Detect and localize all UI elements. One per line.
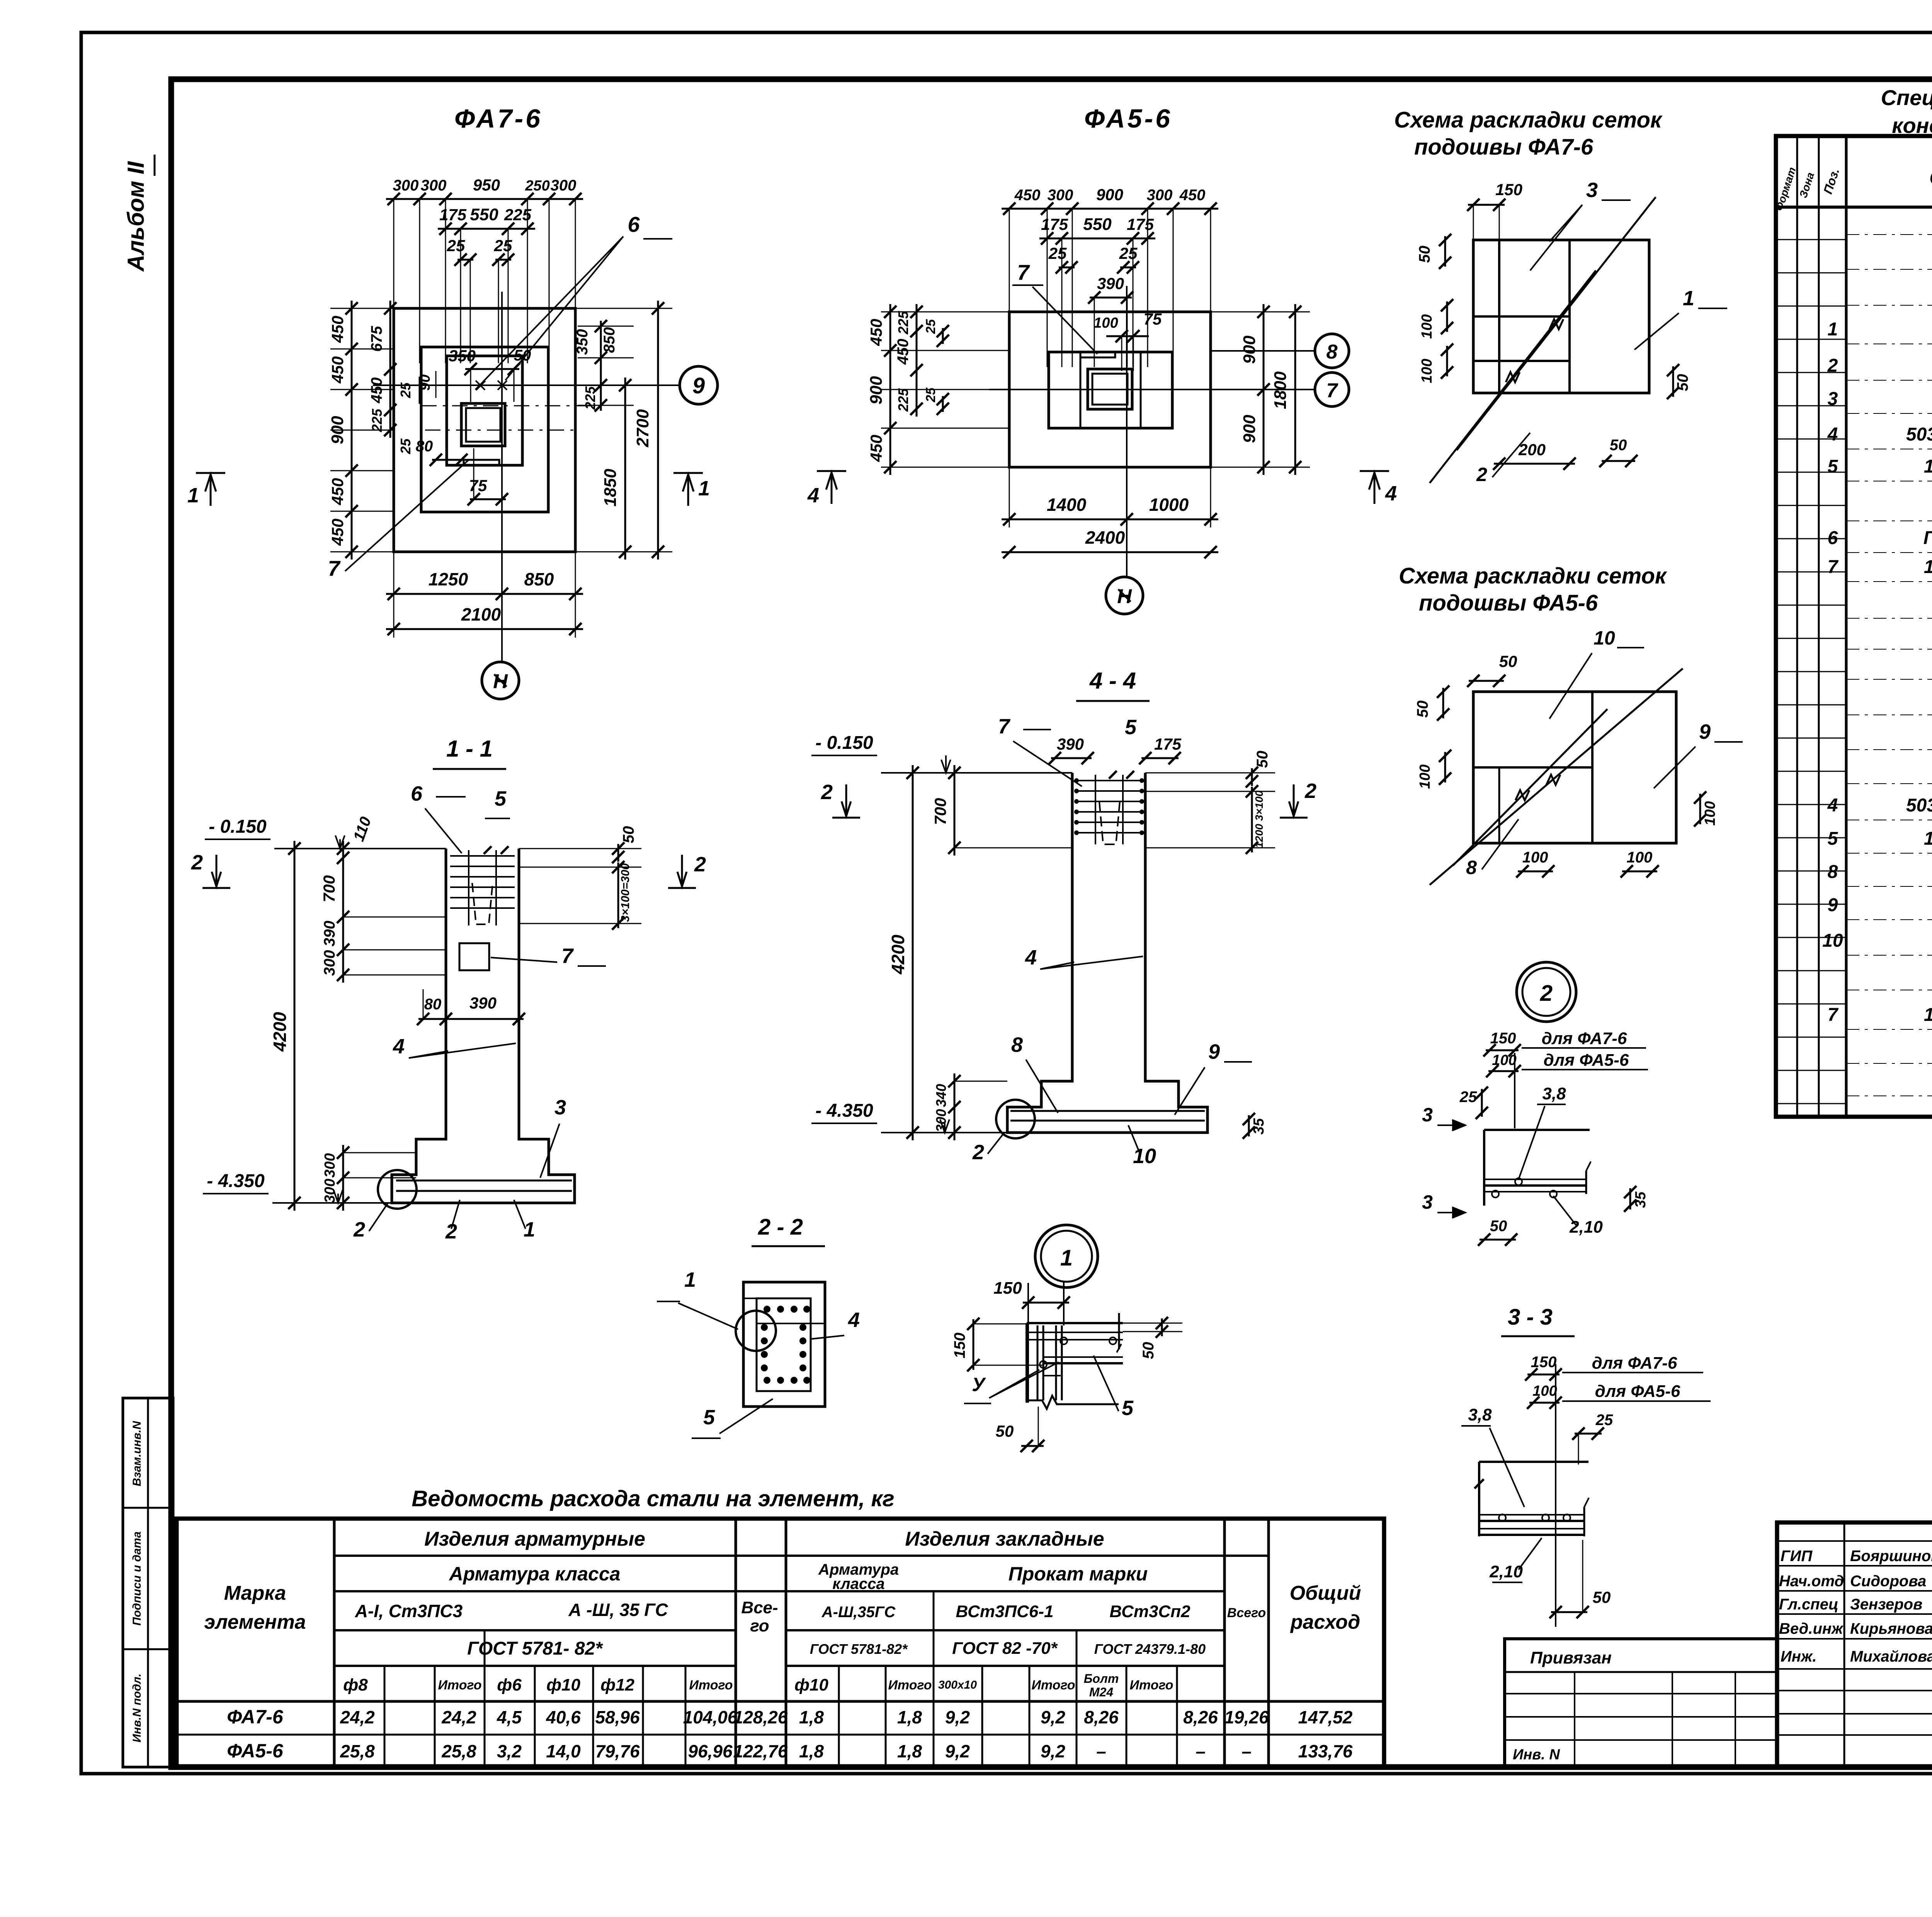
svg-text:4: 4 <box>1025 946 1037 969</box>
detail 1 vertical bars <box>1037 1325 1039 1400</box>
svg-text:Итого: Итого <box>888 1678 932 1692</box>
plan FA7-6 bolt line dashed <box>421 405 595 407</box>
section 1-1 column rebar verticals <box>468 850 469 925</box>
plan FA5-6 outer slab outline <box>1009 312 1211 467</box>
svg-text:1: 1 <box>1683 287 1694 310</box>
svg-text:8: 8 <box>1828 862 1838 882</box>
mesh scheme FA5-6 left dims 50/100 <box>1442 688 1444 718</box>
plan FA5-6 top dim row 1 (450 300 900 300 450) <box>1009 209 1010 367</box>
svg-text:9: 9 <box>1208 1040 1220 1063</box>
section 4-4 right dim 35 <box>1248 1115 1250 1136</box>
svg-text:390: 390 <box>1057 735 1084 753</box>
section 4-4 dim 4200 <box>912 765 914 1140</box>
svg-text:–: – <box>1196 1741 1206 1761</box>
svg-text:2: 2 <box>1540 981 1553 1006</box>
section 1-1 dim 80/390 below <box>418 1018 524 1020</box>
detail 3-3 plate body top line <box>1479 1461 1588 1463</box>
svg-text:–: – <box>1242 1741 1252 1761</box>
svg-text:50: 50 <box>1610 437 1627 454</box>
svg-text:Михайлова: Михайлова <box>1850 1648 1932 1665</box>
svg-text:А-Ш,35ГС: А-Ш,35ГС <box>821 1604 896 1621</box>
svg-text:550: 550 <box>470 205 498 224</box>
plan FA7-6 socket square inner <box>466 408 500 442</box>
detail 2 bottom dim 50 <box>1480 1239 1516 1241</box>
svg-text:3,8: 3,8 <box>1468 1405 1492 1424</box>
plan FA7-6 axis circle Н bottom <box>482 662 519 699</box>
svg-text:ВСт3Сп2: ВСт3Сп2 <box>1109 1602 1190 1621</box>
svg-text:Ведомость расхода стали на эле: Ведомость расхода стали на элемент, кг <box>412 1486 894 1511</box>
detail 3-3 left tick <box>1475 1479 1484 1488</box>
spec body row separators dashed <box>1846 234 1932 235</box>
svg-text:75: 75 <box>469 476 487 495</box>
svg-text:225: 225 <box>895 388 911 412</box>
section 4-4 column and footing outline <box>1007 773 1207 1133</box>
plan FA7-6 bolt cross 1 <box>476 381 485 390</box>
section 4-4 right dim 50 <box>1251 768 1253 786</box>
plan FA7-6 dim 350 50 above pedestal <box>465 368 519 370</box>
svg-text:4: 4 <box>393 1035 405 1058</box>
svg-text:Итого: Итого <box>689 1678 733 1692</box>
svg-text:2100: 2100 <box>461 604 501 624</box>
plan FA7-6 section mark 1 left <box>210 476 212 506</box>
svg-text:ФА7-6: ФА7-6 <box>227 1706 284 1728</box>
svg-text:225: 225 <box>504 206 532 224</box>
title block signature columns <box>1844 1522 1845 1767</box>
svg-text:4 - 4: 4 - 4 <box>1089 668 1136 694</box>
plan FA7-6 left dim chain outer 450/450/900/450/450 <box>351 301 353 560</box>
steel table band line 3 <box>334 1629 736 1631</box>
plan FA7-6 bottom dim 2100 <box>386 628 583 630</box>
svg-text:Сидорова: Сидорова <box>1850 1573 1926 1590</box>
svg-text:Итого: Итого <box>438 1678 481 1692</box>
svg-text:950: 950 <box>473 176 500 194</box>
svg-text:ф10: ф10 <box>546 1675 580 1694</box>
svg-text:2: 2 <box>191 851 203 874</box>
svg-text:2: 2 <box>1476 464 1487 485</box>
svg-text:ФА7-6: ФА7-6 <box>454 104 543 133</box>
svg-text:100: 100 <box>1532 1383 1557 1399</box>
svg-text:200: 200 <box>1518 441 1546 459</box>
svg-text:Изделия арматурные: Изделия арматурные <box>424 1528 645 1550</box>
detail 3-3 plate anchor dots <box>1499 1514 1506 1521</box>
svg-text:Вед.инж: Вед.инж <box>1779 1620 1844 1637</box>
svg-text:4: 4 <box>1827 795 1838 816</box>
plan FA5-6 pedestal band outline <box>1049 352 1172 428</box>
steel table sub verticals zakl <box>838 1666 840 1768</box>
svg-text:900: 900 <box>867 376 886 405</box>
plan FA5-6 socket square inner <box>1092 374 1128 405</box>
svg-text:25: 25 <box>1048 244 1067 262</box>
detail 2 circle mark <box>1517 962 1576 1022</box>
detail 1 right end break marks <box>1118 1313 1120 1349</box>
plan FA5-6 left chain 450/900/450 <box>889 304 891 475</box>
svg-text:–: – <box>1096 1741 1106 1761</box>
detail 1 lower band lines <box>1043 1356 1123 1358</box>
svg-text:ф10: ф10 <box>794 1675 828 1694</box>
plan FA5-6 axis circle 8 <box>1315 334 1349 368</box>
svg-text:300: 300 <box>421 177 447 194</box>
detail 3-3 dim 150 для ФА7-6 <box>1555 1364 1556 1627</box>
plan FA5-6 dim 100 75 <box>1106 335 1149 337</box>
svg-text:300: 300 <box>393 177 419 194</box>
svg-text:24,2: 24,2 <box>340 1707 375 1727</box>
detail 1 column edge left <box>1026 1323 1028 1403</box>
plan FA7-6 bottom dim 1250/850 <box>393 552 395 602</box>
svg-text:- 0.150: - 0.150 <box>209 816 267 837</box>
detail 2-2 column section outline <box>743 1282 825 1407</box>
plan FA5-6 socket square outer <box>1088 369 1132 409</box>
svg-text:7: 7 <box>998 715 1011 738</box>
svg-text:100: 100 <box>1492 1052 1516 1068</box>
svg-text:9,2: 9,2 <box>1041 1707 1065 1727</box>
svg-text:900: 900 <box>1240 415 1259 443</box>
detail 2-2 rebar dots bottom <box>764 1377 770 1384</box>
svg-text:Гл.спец: Гл.спец <box>1779 1596 1838 1613</box>
svg-text:4: 4 <box>1385 482 1397 505</box>
section 1-1 dim 4200 <box>294 841 296 1211</box>
svg-text:175: 175 <box>1041 215 1068 233</box>
svg-text:300: 300 <box>1048 187 1073 204</box>
detail 2 dim 100 для ФА5-6 <box>1488 1070 1519 1072</box>
detail 1 corner step <box>1043 1363 1061 1376</box>
svg-text:9: 9 <box>1699 720 1711 743</box>
svg-text:35: 35 <box>1633 1191 1649 1208</box>
detail 2 plate anchor dots <box>1492 1191 1499 1197</box>
svg-text:503-4-46.87 -КЖИ-С2: 503-4-46.87 -КЖИ-С2 <box>1906 795 1932 816</box>
svg-text:25: 25 <box>447 236 465 255</box>
steel table band line 2 <box>334 1590 786 1592</box>
svg-text:1.400-6/76 вып.1: 1.400-6/76 вып.1 <box>1924 557 1932 577</box>
svg-text:1: 1 <box>187 484 199 507</box>
svg-text:5: 5 <box>495 787 507 810</box>
section 1-1 column and footing outline <box>392 849 575 1203</box>
mesh scheme FA7-6 center divider <box>1568 240 1571 393</box>
svg-text:450: 450 <box>1179 187 1206 204</box>
plan FA7-6 top dim row 3 (25 25) <box>457 259 473 261</box>
svg-text:5: 5 <box>1828 456 1838 477</box>
svg-text:подошвы ФА5-6: подошвы ФА5-6 <box>1419 590 1598 616</box>
svg-text:6: 6 <box>628 212 640 236</box>
svg-text:175: 175 <box>1154 735 1182 753</box>
plan FA5-6 upper axis line <box>1211 350 1315 352</box>
svg-text:1,8: 1,8 <box>799 1741 824 1761</box>
section 4-4 slab mesh lines <box>1010 1110 1205 1112</box>
svg-text:4200: 4200 <box>270 1012 290 1052</box>
mesh scheme FA7-6 dim 150 top <box>1468 204 1505 206</box>
svg-text:для ФА5-6: для ФА5-6 <box>1544 1051 1629 1070</box>
mesh scheme FA7-6 left column divider <box>1498 240 1500 393</box>
svg-text:35: 35 <box>1251 1118 1267 1135</box>
svg-text:150: 150 <box>951 1333 968 1359</box>
detail 2 plate body <box>1484 1129 1590 1131</box>
svg-text:7: 7 <box>1828 557 1839 577</box>
svg-text:79,76: 79,76 <box>595 1741 640 1761</box>
detail 3-3 dim 100 для ФА5-6 <box>1529 1402 1560 1404</box>
privyazan block frame <box>1505 1639 1777 1767</box>
svg-text:225: 225 <box>582 386 598 410</box>
detail 3-3 bottom dim 50 <box>1551 1611 1587 1613</box>
svg-text:450: 450 <box>328 316 347 343</box>
svg-text:10: 10 <box>1133 1145 1156 1168</box>
svg-text:40,6: 40,6 <box>546 1707 581 1727</box>
steel table frame <box>177 1519 1384 1768</box>
svg-text:ф12: ф12 <box>600 1675 634 1694</box>
spec column Поз <box>1845 136 1848 1117</box>
plan FA5-6 horizontal axis line <box>989 389 1315 390</box>
section 1-1 left dim chain 110/700/390/300 <box>342 841 344 983</box>
svg-text:А -Ш, 35 ГС: А -Ш, 35 ГС <box>568 1600 668 1620</box>
detail 2-2 corner detail circle <box>736 1311 776 1351</box>
mesh scheme FA7-6 diagonal 2 <box>1430 270 1596 483</box>
spec narrow column row ladder <box>1776 239 1846 240</box>
svg-text:50: 50 <box>1140 1342 1157 1359</box>
svg-text:340: 340 <box>933 1084 949 1107</box>
svg-text:390: 390 <box>1097 274 1124 293</box>
svg-text:50: 50 <box>1674 374 1691 391</box>
svg-text:А-I, Ст3ПС3: А-I, Ст3ПС3 <box>355 1601 463 1621</box>
svg-text:2: 2 <box>821 781 833 804</box>
svg-text:9,2: 9,2 <box>1041 1741 1065 1761</box>
svg-text:5: 5 <box>1828 828 1838 849</box>
svg-text:100: 100 <box>1702 801 1718 825</box>
svg-text:3: 3 <box>1422 1191 1433 1213</box>
svg-text:25: 25 <box>1459 1089 1477 1106</box>
mesh scheme FA5-6 right dim 100 <box>1699 794 1701 824</box>
plan FA7-6 middle step outline <box>421 347 548 512</box>
svg-text:2: 2 <box>694 853 706 876</box>
plan FA5-6 dim 390 above notch <box>1090 297 1132 299</box>
plan FA5-6 section mark 4 left <box>831 474 833 504</box>
svg-text:1400: 1400 <box>1047 495 1087 515</box>
section 1-1 anchor plate 7 <box>459 943 489 970</box>
svg-text:50: 50 <box>996 1422 1014 1440</box>
svg-text:450: 450 <box>328 356 347 384</box>
plan FA5-6 section mark 4 right <box>1374 474 1376 504</box>
svg-text:25,8: 25,8 <box>441 1741 476 1761</box>
section 1-1 rebar hook dashes <box>472 883 493 924</box>
svg-text:150: 150 <box>1495 180 1522 199</box>
section 4-4 dim 700 left <box>954 765 956 856</box>
svg-text:6: 6 <box>411 782 423 805</box>
svg-text:2: 2 <box>353 1218 365 1241</box>
svg-text:ГОСТ 82 -70*: ГОСТ 82 -70* <box>952 1639 1058 1658</box>
plan FA7-6 right dim chain 1850 <box>624 378 626 560</box>
mesh scheme FA7-6 left dims 50/100/100 <box>1444 236 1446 267</box>
svg-text:58,96: 58,96 <box>595 1707 640 1727</box>
svg-text:1850: 1850 <box>601 469 620 507</box>
svg-text:Подписи и дата: Подписи и дата <box>131 1531 143 1626</box>
svg-text:128,26: 128,26 <box>733 1707 788 1727</box>
svg-text:1.412-1/77 вып.3: 1.412-1/77 вып.3 <box>1924 828 1932 849</box>
detail 1 circle mark <box>1035 1225 1098 1288</box>
svg-text:300: 300 <box>551 177 577 194</box>
svg-text:100: 100 <box>1522 849 1548 866</box>
svg-text:ГОСТ 24379.1-80: ГОСТ 24379.1-80 <box>1923 528 1932 548</box>
plan FA7-6 bottom notch MO-4 <box>464 460 499 465</box>
svg-text:7: 7 <box>1017 260 1030 284</box>
svg-text:У: У <box>972 1374 986 1395</box>
svg-text:900: 900 <box>328 416 347 444</box>
svg-text:24,2: 24,2 <box>441 1707 476 1727</box>
plan FA5-6 vertical axis line <box>1126 286 1128 577</box>
plan FA5-6 axis circle 7 <box>1315 373 1349 407</box>
svg-text:50: 50 <box>1416 246 1433 263</box>
mesh scheme FA5-6 diagonal 1 <box>1430 668 1683 885</box>
svg-text:225: 225 <box>895 311 911 335</box>
mesh scheme FA5-6 dim 50 top <box>1469 680 1504 682</box>
detail 1 dim 150 <box>1023 1302 1069 1304</box>
svg-text:450: 450 <box>867 435 885 462</box>
svg-text:Все-: Все- <box>741 1598 778 1617</box>
section 4-4 dim 390 top <box>1051 757 1092 759</box>
svg-text:Инж.: Инж. <box>1781 1648 1817 1665</box>
steel table band line 1 <box>334 1555 1269 1557</box>
svg-text:150: 150 <box>993 1279 1022 1298</box>
svg-text:8,26: 8,26 <box>1183 1707 1218 1727</box>
section 4-4 column rebar verticals <box>1095 775 1096 844</box>
svg-text:5: 5 <box>1125 716 1137 739</box>
svg-text:Марка: Марка <box>224 1582 286 1604</box>
svg-text:50: 50 <box>1593 1588 1611 1606</box>
plan FA7-6 horizontal axis line <box>373 384 679 386</box>
svg-text:2: 2 <box>445 1220 457 1243</box>
svg-text:Инв. N: Инв. N <box>1513 1747 1560 1763</box>
svg-text:100: 100 <box>1094 315 1118 331</box>
plan FA7-6 socket centerline dashed <box>425 430 580 431</box>
svg-text:8: 8 <box>1327 341 1338 363</box>
svg-text:ГОСТ 24379.1-80: ГОСТ 24379.1-80 <box>1094 1641 1206 1657</box>
svg-text:Схема раскладки сеток: Схема раскладки сеток <box>1394 107 1663 133</box>
svg-text:- 0.150: - 0.150 <box>815 733 873 753</box>
svg-text:5: 5 <box>703 1406 715 1429</box>
plan FA7-6 left dim extension lines <box>330 308 394 309</box>
svg-text:1: 1 <box>698 477 710 500</box>
svg-text:25: 25 <box>398 438 413 454</box>
svg-text:Инв.N подл.: Инв.N подл. <box>131 1674 143 1742</box>
svg-text:147,52: 147,52 <box>1298 1707 1353 1727</box>
svg-text:1: 1 <box>1828 319 1838 340</box>
svg-text:250: 250 <box>525 178 549 194</box>
svg-text:Изделия закладные: Изделия закладные <box>905 1528 1104 1550</box>
section 1-1 left dim bottom 300/300 <box>342 1145 344 1211</box>
mesh scheme FA5-6 diagonal 2 <box>1453 709 1607 866</box>
detail 2 right break <box>1586 1162 1591 1171</box>
svg-text:расход: расход <box>1290 1611 1360 1633</box>
svg-text:Общий: Общий <box>1290 1582 1361 1604</box>
svg-text:3 - 3: 3 - 3 <box>1508 1305 1553 1330</box>
svg-text:9: 9 <box>1828 895 1838 915</box>
svg-text:4: 4 <box>807 484 819 507</box>
title block signature table frame <box>1777 1522 1932 1767</box>
detail 3-3 plate bands <box>1479 1514 1584 1516</box>
svg-text:2400: 2400 <box>1085 527 1125 548</box>
mesh scheme FA7-6 right dim 50 <box>1672 366 1674 397</box>
svg-text:2: 2 <box>972 1141 984 1164</box>
svg-text:ФА5-6: ФА5-6 <box>227 1740 284 1762</box>
svg-text:96,96: 96,96 <box>688 1741 733 1761</box>
svg-text:50: 50 <box>1499 652 1517 670</box>
detail 1 slab top lines <box>1027 1322 1123 1324</box>
svg-text:3,2: 3,2 <box>497 1741 522 1761</box>
svg-text:Бояршинов: Бояршинов <box>1850 1548 1932 1565</box>
detail 3-3 plate left edge <box>1478 1462 1480 1536</box>
svg-text:2: 2 <box>1827 356 1838 376</box>
svg-text:133,76: 133,76 <box>1298 1741 1353 1761</box>
detail 2-2 inner grid lines <box>757 1323 825 1324</box>
plan FA7-6 vertical axis line <box>501 292 503 662</box>
svg-text:19,26: 19,26 <box>1224 1707 1269 1727</box>
svg-text:150: 150 <box>1531 1354 1557 1371</box>
svg-text:Кирьянова: Кирьянова <box>1850 1620 1932 1637</box>
detail 1 bar dots <box>1060 1337 1067 1344</box>
svg-text:7: 7 <box>561 944 574 968</box>
svg-text:Итого: Итого <box>1129 1678 1173 1692</box>
svg-text:Спецификация монолитной же: Спецификация монолитной железобетонной <box>1881 85 1932 110</box>
svg-text:1800: 1800 <box>1271 371 1290 409</box>
plan FA7-6 right dim chain 2700 <box>657 301 659 560</box>
plan FA7-6 pedestal outline <box>447 356 522 465</box>
svg-text:225: 225 <box>369 408 385 432</box>
svg-text:390: 390 <box>469 994 497 1012</box>
svg-text:9,2: 9,2 <box>945 1741 970 1761</box>
svg-text:25: 25 <box>1119 244 1138 262</box>
svg-text:класса: класса <box>832 1575 884 1592</box>
mesh scheme FA5-6 center divider <box>1591 692 1594 843</box>
svg-text:Схема раскладки сеток: Схема раскладки сеток <box>1399 563 1667 589</box>
svg-text:4: 4 <box>848 1308 860 1332</box>
mesh scheme FA5-6 inner verticals bottom left <box>1498 767 1500 843</box>
svg-text:Прокат марки: Прокат марки <box>1009 1563 1148 1585</box>
svg-text:2 - 2: 2 - 2 <box>758 1214 803 1240</box>
svg-text:4200: 4200 <box>888 934 908 975</box>
svg-text:ФА5-6: ФА5-6 <box>1084 104 1172 133</box>
plan FA5-6 left dim extension lines <box>881 311 1009 313</box>
svg-text:- 4.350: - 4.350 <box>207 1171 265 1191</box>
svg-text:50: 50 <box>1254 751 1271 768</box>
svg-text:900: 900 <box>1240 335 1259 364</box>
svg-text:Зензеров: Зензеров <box>1850 1596 1922 1613</box>
svg-text:9,2: 9,2 <box>945 1707 970 1727</box>
svg-text:14,0: 14,0 <box>546 1741 581 1761</box>
steel table sub verticals arm <box>384 1666 386 1768</box>
svg-text:для ФА7-6: для ФА7-6 <box>1542 1029 1627 1048</box>
svg-text:390: 390 <box>321 921 338 947</box>
svg-text:2,10: 2,10 <box>1569 1218 1603 1237</box>
svg-text:1: 1 <box>684 1268 696 1291</box>
plan FA5-6 right dim chain 1800 <box>1294 304 1296 475</box>
section 1-1 right dim 50 and 3x100 <box>617 844 619 862</box>
detail 2-2 stirrup rectangle <box>757 1298 811 1391</box>
svg-text:2: 2 <box>1304 779 1316 803</box>
svg-text:450: 450 <box>328 519 347 546</box>
svg-text:100: 100 <box>1417 764 1433 789</box>
privyazan block grid rows <box>1505 1693 1777 1694</box>
svg-text:675: 675 <box>368 326 385 352</box>
svg-text:104,06: 104,06 <box>683 1707 738 1727</box>
svg-text:Привязан: Привязан <box>1530 1648 1612 1667</box>
left stamp strip cells <box>123 1398 173 1767</box>
plan FA5-6 left chain 225/450/225 <box>916 304 918 417</box>
svg-text:Взам.инв.N: Взам.инв.N <box>131 1420 143 1486</box>
svg-text:подошвы ФА7-6: подошвы ФА7-6 <box>1414 134 1594 160</box>
mesh scheme FA5-6 grid outer <box>1473 692 1676 843</box>
mesh scheme FA5-6 bottom dims 100/100 <box>1518 871 1553 873</box>
svg-text:1: 1 <box>524 1218 535 1241</box>
plan FA7-6 top dim row 1 (300 300 950 250 300) <box>393 199 395 363</box>
svg-text:3: 3 <box>554 1096 566 1119</box>
section 4-4 socket dashed trapezoid <box>1099 802 1120 844</box>
svg-text:3: 3 <box>1828 389 1838 409</box>
